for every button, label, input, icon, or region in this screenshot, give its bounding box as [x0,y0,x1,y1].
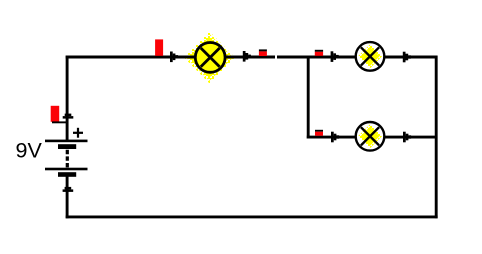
lamp L1 glow outer dither [184,32,235,84]
wire battery - down to bottom rail [66,175,69,218]
current arrow A4 (right, after L2) [403,52,406,63]
lamp L1 glow solid halo [190,38,230,78]
lamp L2 cross [361,47,379,65]
current arrow A1 (right) [170,52,173,63]
current marker M1 (red bar, top wire before L1) [155,39,163,55]
lamp L2 (dim) body [356,42,385,71]
lamp L3 cross [361,127,379,145]
battery B1 plus sign [73,132,83,134]
lamp L1 glow mid dither [186,34,233,81]
current arrow A3 (right, upper branch) [331,51,334,62]
current arrow A5 (right, lower branch) [331,132,334,143]
current arrow A2 (right, after L1) [243,51,246,62]
wire branch horizontal to lamp L3 [307,136,438,139]
current marker M2 (capped red bar after L1) [259,49,267,51]
current marker M5 (red bar beside battery wire) [51,106,60,122]
current arrow A8 (up, below battery) [63,189,74,192]
lamp L1 (lit) body [195,43,225,73]
wire right vertical [435,56,438,219]
current marker M4 (capped red bar, lower branch) [315,130,323,132]
battery B1 plate positive long [45,140,88,143]
lamp L3 bright core [361,127,380,146]
wire branch vertical at junction [307,56,310,139]
current arrow A7 (up, above battery) [63,116,74,119]
battery B1 plate long 2 [45,168,88,171]
wire top (battery + to lamp L1 to node split), with small break at x=275 [66,56,275,59]
current marker M3 (capped red bar, upper branch) [315,50,323,52]
lamp L3 (dim) body [356,122,385,151]
battery B1 plate short thick [58,144,76,149]
wire left vertical (top corner down to battery +) [66,56,69,141]
svg-text:9V: 9V [16,139,43,163]
battery B1 dashed cell link [66,150,69,168]
lamp L1 cross [201,48,220,67]
current arrow A6 (right, after L3) [403,132,406,143]
wire bottom rail [66,215,438,218]
lamp L2 bright core [361,47,380,66]
battery B1 plate short thick 2 [58,172,76,177]
wire top right segment (break to right corner) [277,56,438,59]
